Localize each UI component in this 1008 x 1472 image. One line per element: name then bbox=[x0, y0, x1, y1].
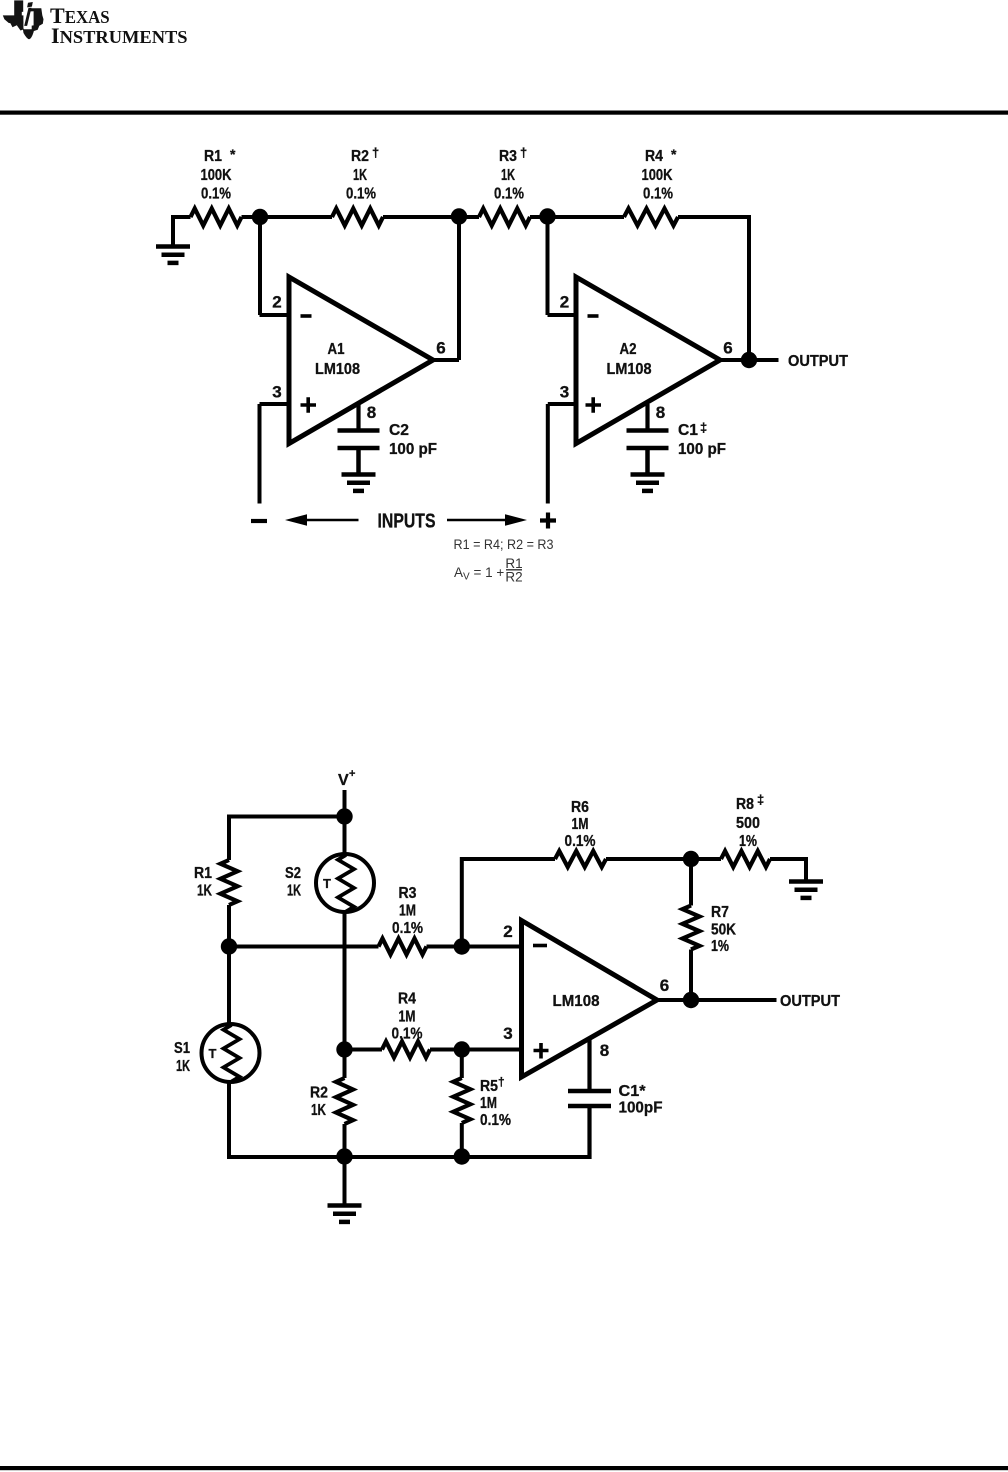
svg-text:1M: 1M bbox=[399, 1008, 416, 1025]
resistor R5 bbox=[453, 1078, 470, 1123]
wire R5 top lead bbox=[460, 1050, 464, 1079]
ground symbol right R8 bbox=[789, 879, 823, 884]
wire A2 output bbox=[720, 358, 779, 362]
svg-text:R7: R7 bbox=[711, 904, 729, 921]
footer rule bbox=[0, 1466, 1008, 1470]
capacitor C1 compensation bbox=[568, 1091, 611, 1106]
svg-text:T: T bbox=[323, 876, 331, 891]
svg-text:6: 6 bbox=[723, 339, 732, 358]
op-amp A2 bbox=[576, 277, 720, 444]
svg-text:1K: 1K bbox=[311, 1102, 326, 1119]
wire junction to R4 bbox=[345, 1048, 383, 1052]
node junction J2 bbox=[451, 208, 467, 224]
node junction J3 bbox=[539, 208, 555, 224]
svg-text:*: * bbox=[230, 146, 236, 162]
svg-text:0.1%: 0.1% bbox=[565, 833, 596, 850]
svg-text:8: 8 bbox=[367, 403, 376, 422]
svg-text:0.1%: 0.1% bbox=[494, 186, 524, 203]
svg-text:T: T bbox=[209, 1046, 217, 1061]
svg-text:C1: C1 bbox=[678, 422, 698, 439]
U1 minus input symbol bbox=[533, 944, 547, 948]
svg-text:8: 8 bbox=[656, 403, 665, 422]
ground symbol at R1 left bbox=[171, 217, 175, 246]
svg-text:2: 2 bbox=[560, 293, 569, 312]
svg-text:1%: 1% bbox=[711, 938, 729, 955]
svg-text:S1: S1 bbox=[174, 1040, 190, 1057]
svg-text:3: 3 bbox=[560, 383, 569, 402]
wire R3 to inverting input bbox=[427, 945, 522, 949]
wire A1 non-inverting input bbox=[260, 404, 290, 504]
resistor R2 bridge bbox=[336, 1078, 353, 1124]
op-amp A1 bbox=[289, 277, 433, 444]
svg-text:†: † bbox=[498, 1075, 505, 1089]
arrow to minus input bbox=[303, 519, 359, 521]
svg-text:OUTPUT: OUTPUT bbox=[780, 993, 840, 1010]
wire C1 to rail bbox=[587, 1106, 591, 1159]
svg-text:100 pF: 100 pF bbox=[389, 441, 437, 458]
ground symbol below C1 bbox=[631, 472, 665, 477]
svg-text:C2: C2 bbox=[389, 422, 409, 439]
minus input terminal bbox=[251, 519, 267, 523]
wire rail left to R1 bbox=[171, 215, 191, 219]
svg-text:0.1%: 0.1% bbox=[643, 186, 673, 203]
svg-text:100pF: 100pF bbox=[619, 1099, 663, 1116]
svg-text:LM108: LM108 bbox=[553, 993, 600, 1010]
resistor R7 bbox=[683, 906, 700, 950]
svg-text:A1: A1 bbox=[328, 341, 345, 358]
ground symbol bottom bbox=[343, 1157, 347, 1205]
svg-text:R3: R3 bbox=[399, 885, 417, 902]
svg-text:R1: R1 bbox=[194, 865, 212, 882]
wire A2 non-inverting input bbox=[548, 404, 576, 504]
svg-text:2: 2 bbox=[503, 922, 512, 941]
resistor R1 bbox=[191, 209, 242, 226]
svg-text:OUTPUT: OUTPUT bbox=[788, 353, 848, 370]
header rule bbox=[0, 111, 1008, 115]
wire U1 output bbox=[657, 998, 777, 1002]
resistor R2 bbox=[332, 209, 383, 226]
svg-text:0.1%: 0.1% bbox=[480, 1112, 511, 1129]
svg-text:V: V bbox=[338, 772, 349, 789]
wire R7 bottom lead bbox=[689, 950, 693, 1001]
resistor R3 bbox=[479, 209, 530, 226]
wire S2 bottom lead bbox=[343, 912, 347, 1050]
U1 plus input symbol bbox=[534, 1043, 549, 1059]
A2 plus input symbol bbox=[586, 397, 602, 413]
TI logo Texas emblem bbox=[3, 0, 44, 39]
svg-text:R1: R1 bbox=[204, 148, 222, 165]
resistor R1 bridge bbox=[221, 860, 238, 905]
wire R2 to J2 bbox=[383, 215, 479, 219]
svg-text:500: 500 bbox=[736, 815, 760, 832]
node bottom rail R5 junction bbox=[454, 1148, 470, 1164]
svg-text:A2: A2 bbox=[620, 341, 637, 358]
svg-text:100K: 100K bbox=[201, 167, 232, 184]
svg-text:R8: R8 bbox=[736, 796, 754, 813]
svg-text:C1*: C1* bbox=[619, 1083, 647, 1100]
wire S1 top lead bbox=[227, 947, 231, 1025]
svg-text:1K: 1K bbox=[287, 883, 301, 900]
node V+ junction bbox=[336, 808, 352, 824]
svg-text:R6: R6 bbox=[571, 799, 589, 816]
wire S1 bottom lead bbox=[229, 1082, 345, 1160]
svg-text:R4: R4 bbox=[645, 148, 663, 165]
wire left junction to R3 bbox=[229, 945, 379, 949]
wire R1 top lead bbox=[227, 815, 231, 861]
resistor R6 bbox=[555, 851, 606, 867]
node junction J1 bbox=[252, 209, 268, 225]
node output junction circuit 1 bbox=[741, 352, 757, 368]
svg-text:R2: R2 bbox=[351, 148, 369, 165]
svg-text:1K: 1K bbox=[353, 167, 367, 184]
svg-text:100 pF: 100 pF bbox=[678, 441, 726, 458]
thermistor S2 bbox=[316, 854, 374, 912]
svg-text:*: * bbox=[671, 146, 677, 162]
svg-text:‡: ‡ bbox=[757, 792, 764, 807]
svg-text:†: † bbox=[372, 145, 379, 160]
wire A2 inverting input bbox=[548, 217, 577, 315]
svg-text:1K: 1K bbox=[176, 1058, 190, 1075]
wire R1 bottom lead bbox=[227, 905, 231, 947]
op-amp U1 bbox=[522, 921, 658, 1078]
svg-text:1K: 1K bbox=[501, 167, 515, 184]
wire R1 to R2 bbox=[242, 215, 333, 219]
svg-text:0.1%: 0.1% bbox=[392, 920, 423, 937]
A2 minus input symbol bbox=[588, 314, 599, 318]
plus input terminal bbox=[540, 513, 556, 529]
svg-text:LM108: LM108 bbox=[315, 361, 360, 378]
svg-text:R2: R2 bbox=[505, 570, 522, 585]
wire U1 pin 8 stub bbox=[587, 1039, 591, 1092]
wire R2 top lead bbox=[343, 1050, 347, 1079]
svg-text:1M: 1M bbox=[480, 1095, 497, 1112]
node feedback junction bbox=[683, 851, 699, 867]
wire R4 to non-inverting input bbox=[430, 1048, 522, 1052]
resistor R3 bridge bbox=[379, 939, 427, 955]
svg-text:1K: 1K bbox=[197, 883, 212, 900]
svg-text:R3: R3 bbox=[499, 148, 517, 165]
svg-text:50K: 50K bbox=[711, 921, 736, 938]
wire feedback riser bbox=[460, 859, 555, 947]
thermistor S1 bbox=[202, 1024, 260, 1082]
svg-text:3: 3 bbox=[272, 383, 281, 402]
wire R6 to feedback junction bbox=[606, 857, 721, 861]
wire R5 bottom lead bbox=[460, 1123, 464, 1157]
node bottom rail ground junction bbox=[336, 1148, 352, 1164]
wire bottom rail bbox=[345, 1155, 590, 1159]
A1 plus input symbol bbox=[301, 397, 317, 413]
svg-text:1M: 1M bbox=[399, 902, 416, 919]
formula Av = 1 + R1/R2 bbox=[454, 556, 523, 585]
svg-text:6: 6 bbox=[660, 976, 669, 995]
wire R3 to R4 bbox=[530, 215, 624, 219]
wire S2 top lead bbox=[343, 817, 347, 856]
capacitor C2 bbox=[338, 431, 380, 475]
node inverting input junction bbox=[454, 938, 470, 954]
svg-text:INSTRUMENTS: INSTRUMENTS bbox=[51, 23, 188, 48]
svg-text:LM108: LM108 bbox=[607, 361, 652, 378]
wire A1 output bbox=[433, 358, 459, 362]
svg-text:†: † bbox=[520, 145, 527, 160]
A1 minus input symbol bbox=[301, 314, 312, 318]
wire V+ rail to R1 branch bbox=[229, 815, 345, 819]
svg-text:0.1%: 0.1% bbox=[392, 1025, 423, 1042]
svg-text:1M: 1M bbox=[572, 816, 589, 833]
wire V+ feed bbox=[343, 790, 347, 817]
svg-text:INPUTS: INPUTS bbox=[378, 511, 436, 533]
wire R8 to ground bbox=[770, 859, 806, 881]
capacitor C1 bbox=[627, 431, 669, 475]
svg-text:S2: S2 bbox=[285, 865, 301, 882]
svg-text:0.1%: 0.1% bbox=[346, 186, 376, 203]
svg-text:AV = 1 +: AV = 1 + bbox=[454, 565, 504, 583]
wire A1 inverting input bbox=[260, 217, 290, 315]
svg-text:‡: ‡ bbox=[700, 420, 707, 435]
wire A1 pin 8 stub bbox=[356, 404, 360, 430]
svg-text:3: 3 bbox=[503, 1024, 512, 1043]
svg-text:6: 6 bbox=[436, 339, 445, 358]
node bridge left junction bbox=[221, 938, 237, 954]
svg-text:R4: R4 bbox=[398, 990, 416, 1007]
svg-text:2: 2 bbox=[272, 293, 281, 312]
svg-text:0.1%: 0.1% bbox=[201, 186, 231, 203]
svg-text:R5: R5 bbox=[480, 1078, 498, 1095]
node output junction circuit 2 bbox=[683, 992, 699, 1008]
resistor R4 bridge bbox=[382, 1042, 430, 1058]
svg-text:8: 8 bbox=[600, 1041, 609, 1060]
svg-text:100K: 100K bbox=[642, 167, 673, 184]
svg-text:+: + bbox=[349, 768, 355, 780]
resistor R4 bbox=[624, 209, 678, 226]
svg-text:R2: R2 bbox=[310, 1084, 328, 1101]
wire R4 to output branch bbox=[678, 217, 749, 360]
svg-text:1%: 1% bbox=[739, 833, 757, 850]
node non-inverting junction bbox=[454, 1041, 470, 1057]
wire A2 pin 8 stub bbox=[645, 404, 649, 430]
wire R7 top lead bbox=[689, 859, 693, 906]
wire R2 bottom lead bbox=[343, 1124, 347, 1157]
resistor R8 bbox=[721, 851, 770, 867]
svg-text:R1 = R4; R2 = R3: R1 = R4; R2 = R3 bbox=[454, 537, 554, 552]
wire A1 feedback riser bbox=[457, 217, 461, 360]
ground symbol below C2 bbox=[342, 472, 376, 477]
arrow to plus input bbox=[447, 519, 509, 521]
node S2 R2 R4 junction bbox=[336, 1041, 352, 1057]
